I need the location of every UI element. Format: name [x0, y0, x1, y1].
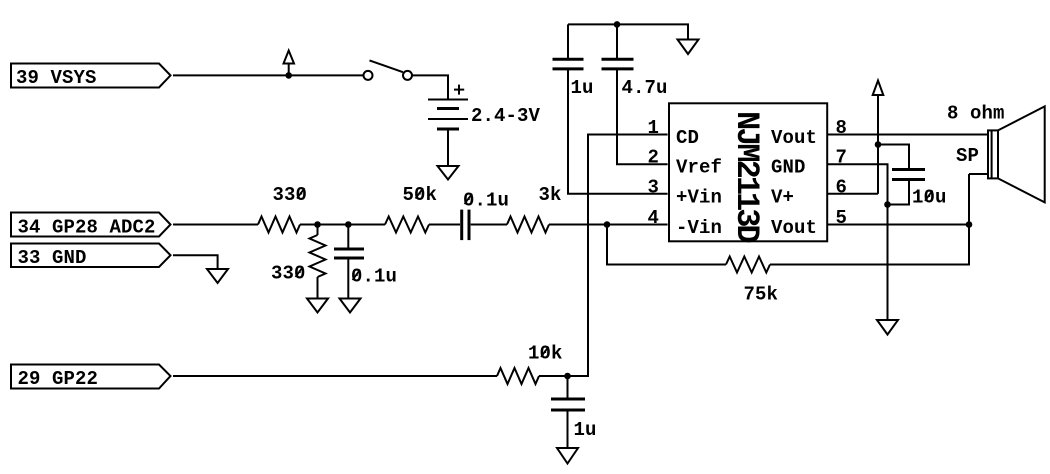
svg-text:1: 1 — [648, 117, 660, 139]
wire GND flag to ground — [173, 255, 218, 269]
svg-text:10u: 10u — [912, 186, 947, 208]
svg-text:34 GP28 ADC2: 34 GP28 ADC2 — [18, 217, 156, 239]
resistor 10k — [497, 368, 539, 384]
svg-text:-Vin: -Vin — [676, 217, 722, 239]
capacitor 4.7u — [602, 24, 634, 69]
IC U1 NJM2113D body — [669, 103, 827, 241]
wire 1u bottom to ground — [567, 410, 569, 448]
wire R330 to R50k — [300, 224, 385, 226]
svg-text:Vref: Vref — [676, 157, 722, 179]
capacitor 10u — [892, 170, 925, 180]
ground top rail — [678, 40, 699, 55]
wire 330 shunt to ground — [317, 277, 319, 299]
capacitor 0.1u series — [462, 210, 469, 241]
svg-text:1u: 1u — [574, 419, 597, 441]
svg-text:7: 7 — [836, 147, 848, 169]
resistor 330 vertical — [310, 235, 326, 277]
capacitor 1u bottom — [551, 399, 585, 410]
capacitor 0.1u shunt — [334, 249, 364, 258]
svg-text:Vout: Vout — [771, 217, 817, 239]
junction 4.7u top — [614, 21, 621, 28]
wire 10u bottom — [888, 180, 910, 205]
wire to 330 shunt — [317, 225, 319, 236]
svg-text:330: 330 — [271, 263, 306, 285]
wire -Vin to 75k — [607, 225, 726, 265]
wire pin 8 Vout to speaker — [828, 134, 989, 136]
ground 330 shunt — [307, 299, 328, 313]
ground pin 7 — [877, 320, 898, 335]
connector flag 29 GP22 — [11, 365, 171, 389]
ground battery — [438, 166, 459, 180]
svg-text:8: 8 — [836, 117, 848, 139]
junction 10u top tap — [875, 141, 882, 148]
junction output node — [966, 221, 973, 228]
resistor 3k — [507, 217, 549, 233]
wire to 0.1u shunt — [347, 225, 349, 250]
resistor 50k — [385, 217, 429, 233]
wire 1u to +Vin pin 3 — [568, 69, 668, 194]
connector flag 33 GND — [11, 244, 171, 268]
junction divider node — [314, 221, 321, 228]
svg-text:75k: 75k — [744, 283, 779, 305]
junction 10u bottom — [884, 201, 891, 208]
wire 10u top — [878, 145, 909, 170]
svg-text:33 GND: 33 GND — [18, 247, 87, 269]
power symbol VSYS arrow — [284, 51, 295, 76]
svg-text:3: 3 — [648, 176, 660, 198]
wire 50k to 0.1u series — [429, 224, 460, 226]
wire 0.1u series to 3k — [471, 224, 507, 226]
wire GP28 to R330 — [173, 224, 258, 226]
svg-text:4.7u: 4.7u — [622, 77, 668, 99]
connector flag 34 GP28 ADC2 — [11, 213, 171, 237]
wire 4.7u to Vref pin 2 — [617, 69, 668, 164]
svg-text:Vout: Vout — [771, 127, 817, 149]
svg-text:8 ohm: 8 ohm — [947, 103, 1005, 125]
wire GP22 to 10k — [173, 375, 497, 377]
switch SW1 — [364, 60, 413, 80]
svg-text:+Vin: +Vin — [676, 186, 722, 208]
svg-text:5: 5 — [836, 207, 848, 229]
wire 75k to output node — [770, 174, 969, 265]
wire pin 5 Vout — [828, 224, 970, 226]
svg-text:39 VSYS: 39 VSYS — [16, 67, 97, 89]
ground 33 GND — [207, 269, 228, 283]
svg-text:6: 6 — [836, 176, 848, 198]
speaker SP 8 ohm — [988, 106, 1045, 202]
svg-text:NJM2113D: NJM2113D — [728, 111, 765, 242]
battery BT1 2.4-3V — [428, 100, 468, 130]
svg-text:1u: 1u — [571, 77, 594, 99]
svg-text:2: 2 — [648, 147, 660, 169]
wire CD pin 1 to 10k node — [539, 135, 668, 377]
wire VSYS to switch — [173, 74, 364, 76]
connector flag 39 VSYS — [11, 64, 171, 88]
battery plus sign — [454, 85, 464, 95]
svg-text:330: 330 — [273, 184, 308, 206]
junction filter cap node — [345, 221, 352, 228]
svg-text:0.1u: 0.1u — [463, 190, 509, 212]
svg-text:4: 4 — [648, 207, 660, 229]
svg-text:29 GP22: 29 GP22 — [18, 368, 99, 390]
resistor 75k — [726, 257, 770, 273]
svg-text:10k: 10k — [528, 343, 563, 365]
svg-text:CD: CD — [676, 127, 699, 149]
junction VSYS power tap — [285, 72, 292, 79]
svg-text:GND: GND — [771, 157, 806, 179]
wire 3k to -Vin pin 4 — [549, 224, 668, 226]
wire pin 6 V+ — [828, 193, 879, 195]
junction 10k 1u node — [564, 373, 571, 380]
wire switch to battery — [412, 75, 448, 99]
wire 0.1u shunt to ground — [347, 258, 349, 299]
top ground rail wire — [568, 24, 688, 39]
resistor 330 horizontal — [258, 217, 300, 233]
wire node to 1u bottom — [567, 376, 569, 399]
wire battery to ground — [447, 129, 449, 166]
svg-text:V+: V+ — [771, 186, 794, 208]
svg-text:50k: 50k — [403, 184, 438, 206]
junction -Vin node — [604, 221, 611, 228]
svg-text:0.1u: 0.1u — [351, 266, 397, 288]
power symbol V+ arrow — [873, 81, 884, 194]
svg-text:SP: SP — [956, 145, 979, 167]
wire pin 7 GND to ground — [828, 164, 888, 320]
capacitor 1u top — [553, 24, 584, 69]
ground 0.1u shunt — [340, 299, 361, 313]
ground 1u bottom — [557, 448, 578, 464]
wire speaker bottom terminal — [969, 173, 988, 175]
svg-text:2.4-3V: 2.4-3V — [471, 105, 541, 127]
svg-text:3k: 3k — [539, 184, 562, 206]
